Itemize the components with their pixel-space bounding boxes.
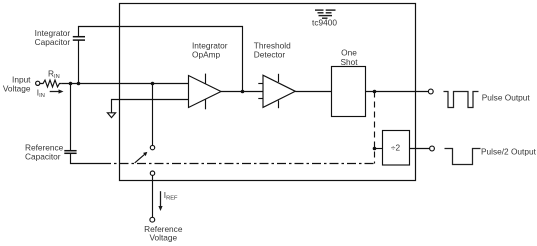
node: input/integrator-cap junction [77,82,81,86]
reference voltage terminal [150,217,155,222]
ground [107,113,115,118]
op-amp U2 power pins [278,74,280,82]
pulse/2 output waveform [445,149,481,165]
wire: switch lower contact to reference voltage terminal [152,175,154,217]
op-amp U2 threshold detector [263,75,295,107]
svg-text:Capacitor: Capacitor [35,37,71,47]
svg-text:Shot: Shot [340,57,358,67]
svg-text:Voltage: Voltage [3,83,31,93]
node: feedback/output junction [241,90,245,94]
svg-text:tc9400: tc9400 [312,18,337,28]
wire: feedback from cap top to opamp output [79,27,243,92]
pulse output waveform [444,92,479,108]
wire: one shot output to pulse terminal [366,91,429,93]
wire: switch top to input line [152,84,154,146]
wire: opamp1 output to threshold detector [221,91,263,93]
wire: junction to divide-by-2 [375,148,383,150]
wire: threshold detector to one shot [295,91,331,93]
input terminal [36,81,40,85]
wire: main input line to opamp inverting input [62,83,189,85]
svg-text:Detector: Detector [254,50,286,60]
svg-text:Pulse/2 Output: Pulse/2 Output [481,146,537,156]
wire: dash-dot line to divider branch [102,163,375,165]
node: one shot output / divider branch [373,90,377,94]
svg-text:OpAmp: OpAmp [192,50,221,60]
switch S1 arm [135,154,145,163]
switch S1 upper contact [150,145,154,149]
svg-text:Voltage: Voltage [149,233,177,243]
pulse/2 output terminal [430,146,435,151]
switch S1 lower contact [150,171,154,175]
reference capacitor [64,151,76,154]
svg-text:Pulse Output: Pulse Output [482,92,531,102]
op-amp U2 input stubs [258,83,263,85]
wire: dashed branch from one shot output down [374,92,376,164]
svg-text:Capacitor: Capacitor [25,152,61,162]
svg-text:÷2: ÷2 [391,143,401,153]
wire: integrator cap to input line [78,40,80,83]
wire: divide-by-2 output to terminal [410,148,430,150]
node: divider input junction [373,147,377,151]
wire: ground to opamp + input [112,100,189,113]
node: input/reference-cap junction [69,82,73,86]
op-amp U1 integrator [189,76,222,108]
IIN current arrow [50,91,60,93]
one shot block [332,67,366,117]
wire: reference cap bottom to dash-dot line [71,153,103,163]
pulse output terminal [428,89,433,94]
wire: input junction down to reference capacitor [70,84,72,151]
IC boundary box tc9400 [120,4,416,181]
IREF current arrow [160,191,162,207]
node: switch/input junction [151,82,155,86]
integrator capacitor [73,37,85,40]
resistor RIN [40,80,62,87]
divide-by-2 block [383,131,410,166]
earth ground (supply) [315,10,336,18]
op-amp U1 power pins [205,74,207,84]
